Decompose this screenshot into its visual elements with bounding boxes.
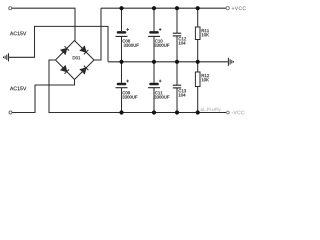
label D01 — [73, 56, 81, 59]
capacitor C12 leads — [176, 8, 178, 62]
middle rail ground — [108, 61, 228, 63]
terminal +VCC — [226, 7, 229, 10]
junction dots top rail — [119, 6, 199, 10]
diode D01-b top-right edge — [80, 46, 88, 54]
resistor R12 body — [195, 72, 200, 87]
label AC15V (upper) — [10, 32, 26, 36]
terminal -VCC — [227, 111, 230, 114]
bridge rectifier D01 diamond — [56, 41, 95, 80]
ground left earth symbol — [4, 53, 9, 61]
label 3300UF — [122, 96, 137, 99]
label +VCC — [232, 7, 246, 11]
label -VCC — [232, 111, 245, 115]
label 3300UF — [154, 44, 169, 47]
junction dots bottom rail — [119, 110, 199, 114]
label 104 — [179, 42, 186, 45]
label AC15V (lower) — [10, 87, 26, 91]
label C13 — [179, 89, 186, 92]
ground right earth symbol — [228, 58, 233, 66]
junction dots middle rail — [119, 60, 199, 64]
diode D01-d bottom-right edge — [80, 66, 88, 74]
capacitor C12 plates — [173, 33, 181, 36]
diode D01-c bottom-left edge — [61, 66, 69, 74]
resistor R12 leads — [197, 62, 199, 113]
wire bridge right vertex to top rail — [94, 8, 101, 60]
diode D01-a top-left edge — [61, 46, 69, 54]
resistor R11 leads — [197, 8, 199, 62]
capacitor C08 leads — [121, 8, 123, 62]
terminal AC input 1 (top-left) — [9, 7, 12, 10]
capacitor C08 plates — [117, 31, 127, 33]
resistor R11 body — [195, 27, 200, 40]
label C10 — [155, 40, 163, 43]
wire terminal 1 to bridge top vertex — [12, 8, 75, 40]
label R11 — [202, 29, 209, 32]
capacitor C11 plates — [149, 83, 159, 86]
label 3300UF — [124, 44, 139, 47]
label C12 — [179, 37, 186, 40]
label C08 — [123, 40, 130, 43]
label C11 — [155, 91, 162, 94]
label 3300UF — [154, 96, 169, 99]
label 104 — [179, 94, 186, 97]
top rail +DC — [101, 7, 226, 9]
capacitor C11 leads — [153, 62, 155, 113]
terminal AC input 2 (bottom-left) — [9, 111, 12, 114]
label 10K — [202, 33, 209, 36]
bottom rail -DC — [49, 112, 227, 114]
label R12 — [202, 74, 209, 77]
capacitor C10 plates — [149, 31, 159, 33]
capacitor C10 leads — [153, 8, 155, 62]
label C09 — [123, 91, 130, 94]
capacitor C09 leads — [121, 62, 123, 113]
capacitor C13 leads — [176, 62, 178, 113]
wire bridge left vertex to bottom rail — [49, 60, 56, 113]
capacitor C09 plates — [117, 83, 127, 86]
capacitor C13 plates — [173, 85, 181, 88]
label 10K — [202, 78, 209, 81]
watermark — [201, 108, 221, 112]
wire ground to middle rail — [9, 26, 108, 61]
wire terminal 2 to bridge bottom vertex — [12, 80, 74, 113]
